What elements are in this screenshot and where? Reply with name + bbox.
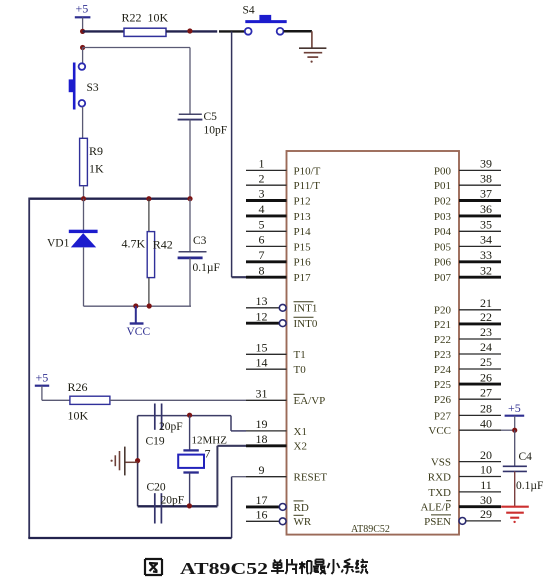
pin 2 P11/T (left) xyxy=(246,171,320,192)
wire R26 to EA/VP pin 31 xyxy=(110,399,246,401)
svg-text:C5: C5 xyxy=(204,111,218,123)
svg-text:40: 40 xyxy=(480,416,492,430)
wire R9 to VD1 rail xyxy=(83,186,85,199)
svg-text:PSEN: PSEN xyxy=(424,516,451,528)
wire S3 to R9 xyxy=(82,107,84,139)
pin 19 X1 (left) xyxy=(246,417,307,438)
svg-text:38: 38 xyxy=(480,171,492,185)
crystal Y1 12MHZ xyxy=(178,416,227,506)
pin 36 P03 (right) xyxy=(434,202,501,223)
pin 40 VCC (right) xyxy=(428,416,501,437)
svg-text:EA/VP: EA/VP xyxy=(294,395,326,407)
pin 29 PSEN (right) xyxy=(424,507,501,528)
pin 8 P17 (left) xyxy=(246,263,311,284)
svg-text:1K: 1K xyxy=(89,162,104,176)
svg-text:INT0: INT0 xyxy=(294,318,318,330)
node junction C4 top xyxy=(512,428,517,433)
node junction ground stub xyxy=(135,458,140,463)
svg-text:24: 24 xyxy=(480,340,492,354)
svg-text:P05: P05 xyxy=(434,241,452,253)
svg-text:29: 29 xyxy=(480,507,492,521)
diode VD1 xyxy=(47,199,98,307)
node junction right of R22 xyxy=(187,28,192,33)
pin 16 WR (left) xyxy=(246,508,312,529)
svg-text:25: 25 xyxy=(480,355,492,369)
svg-text:VD1: VD1 xyxy=(47,238,70,250)
pin 21 P20 (right) xyxy=(434,296,501,317)
svg-text:T0: T0 xyxy=(294,364,307,376)
power +5 (top left) xyxy=(75,2,91,32)
pin 37 P02 (right) xyxy=(434,187,501,208)
wire crystal left rail xyxy=(137,416,139,507)
wire R22 to S4 xyxy=(166,30,245,32)
wire crystal bottom rail xyxy=(138,505,218,507)
node junction R42 top xyxy=(146,196,151,201)
ground (left, rotated) xyxy=(111,447,138,476)
svg-text:36: 36 xyxy=(480,202,492,216)
pin 11 TXD (right) xyxy=(428,478,501,499)
power VCC xyxy=(127,306,151,338)
svg-text:23: 23 xyxy=(480,325,492,339)
svg-text:P22: P22 xyxy=(434,334,451,346)
svg-text:C20: C20 xyxy=(147,482,166,494)
pin 26 P25 (right) xyxy=(434,370,501,391)
pin 39 P00 (right) xyxy=(434,157,501,178)
svg-text:P27: P27 xyxy=(434,410,452,422)
node junction C5-C3 xyxy=(187,196,192,201)
switch S3 xyxy=(69,48,99,110)
svg-text:P12: P12 xyxy=(294,195,311,207)
svg-text:32: 32 xyxy=(480,263,492,277)
svg-text:VCC: VCC xyxy=(428,425,451,437)
pin 20 VSS (right) xyxy=(431,448,501,469)
svg-text:P24: P24 xyxy=(434,364,452,376)
pin 22 P21 (right) xyxy=(434,310,501,331)
resistor R9 xyxy=(80,138,104,185)
svg-text:+5: +5 xyxy=(76,2,89,16)
svg-text:+5: +5 xyxy=(508,401,521,415)
svg-text:C4: C4 xyxy=(519,451,533,463)
svg-text:P21: P21 xyxy=(434,319,451,331)
pin 3 P12 (left) xyxy=(246,187,311,208)
svg-text:P04: P04 xyxy=(434,226,452,238)
node junction VCC stub xyxy=(133,303,138,308)
svg-text:P15: P15 xyxy=(294,241,312,253)
svg-text:17: 17 xyxy=(256,493,268,507)
capacitor C5 xyxy=(178,111,228,199)
pin 18 X2 (left) xyxy=(246,432,307,453)
svg-text:R9: R9 xyxy=(89,144,103,158)
svg-text:37: 37 xyxy=(480,187,492,201)
svg-text:INT1: INT1 xyxy=(294,303,318,315)
svg-text:T1: T1 xyxy=(294,349,306,361)
node junction lower +5 rail xyxy=(80,45,85,50)
svg-text:28: 28 xyxy=(480,402,492,416)
title text: 图 AT89C52 单片机最小系统 xyxy=(145,559,368,578)
pin 13 INT1 (left) xyxy=(246,294,317,315)
pin 28 P27 (right) xyxy=(434,402,501,423)
svg-text:X2: X2 xyxy=(294,441,307,453)
svg-text:1: 1 xyxy=(259,157,265,171)
svg-text:0.1µF: 0.1µF xyxy=(516,480,543,492)
svg-text:X1: X1 xyxy=(294,426,307,438)
svg-text:12: 12 xyxy=(256,309,268,323)
wire RESET riser xyxy=(232,477,246,538)
ground (bottom right, red) xyxy=(501,507,529,523)
wire X1 top rail xyxy=(138,415,231,417)
svg-text:R26: R26 xyxy=(68,380,88,394)
svg-text:P26: P26 xyxy=(434,394,452,406)
pin 6 P15 (left) xyxy=(246,233,311,254)
wire junction to C5 branch xyxy=(83,48,190,114)
pin 27 P26 (right) xyxy=(434,385,501,406)
svg-text:R42: R42 xyxy=(153,238,173,252)
svg-text:2: 2 xyxy=(259,171,265,185)
svg-text:ALE/P: ALE/P xyxy=(420,502,451,514)
wire VCC pin 40 to C4 node xyxy=(501,429,515,431)
svg-text:C19: C19 xyxy=(146,436,165,448)
node junction on +5 rail xyxy=(80,29,85,34)
pin 35 P04 (right) xyxy=(434,218,501,239)
svg-text:P11/T: P11/T xyxy=(294,180,321,192)
pin 1 P10/T (left) xyxy=(246,157,321,178)
pin 7 P16 (left) xyxy=(246,248,311,269)
svg-text:10pF: 10pF xyxy=(204,125,228,137)
svg-text:WR: WR xyxy=(294,516,312,528)
svg-text:7: 7 xyxy=(205,447,211,461)
svg-text:P17: P17 xyxy=(294,272,312,284)
power +5 (at R26) xyxy=(35,371,49,401)
node junction crystal bottom xyxy=(187,503,192,508)
svg-text:34: 34 xyxy=(480,233,492,247)
svg-text:VSS: VSS xyxy=(431,457,451,469)
svg-text:P14: P14 xyxy=(294,226,312,238)
wire +5 to R26 xyxy=(42,399,70,401)
svg-text:35: 35 xyxy=(480,218,492,232)
svg-text:8: 8 xyxy=(259,263,265,277)
svg-text:31: 31 xyxy=(256,387,268,401)
svg-text:0.1µF: 0.1µF xyxy=(193,262,220,274)
pin 24 P23 (right) xyxy=(434,340,501,361)
svg-text:9: 9 xyxy=(259,463,265,477)
svg-text:5: 5 xyxy=(259,218,265,232)
pin 33 P06 (right) xyxy=(434,248,501,269)
svg-text:P03: P03 xyxy=(434,211,452,223)
wire S4 branch down to P17 pin 8 xyxy=(232,31,246,277)
svg-text:30: 30 xyxy=(480,493,492,507)
pin 10 RXD (right) xyxy=(428,463,501,484)
svg-text:20: 20 xyxy=(480,448,492,462)
svg-text:10K: 10K xyxy=(68,409,89,423)
svg-text:VCC: VCC xyxy=(127,326,151,338)
svg-text:20pF: 20pF xyxy=(159,421,183,433)
svg-text:+5: +5 xyxy=(36,371,49,385)
svg-text:P01: P01 xyxy=(434,180,451,192)
svg-text:P13: P13 xyxy=(294,211,312,223)
svg-text:19: 19 xyxy=(256,417,268,431)
switch S4 xyxy=(243,5,287,35)
IC U1 AT89C52 body xyxy=(287,151,460,535)
pin 23 P22 (right) xyxy=(434,325,501,346)
svg-text:S4: S4 xyxy=(243,5,255,17)
svg-text:10: 10 xyxy=(480,463,492,477)
svg-text:P00: P00 xyxy=(434,165,452,177)
svg-text:AT89C52: AT89C52 xyxy=(351,524,390,535)
wire +5 rail to R22 xyxy=(83,30,124,32)
svg-text:16: 16 xyxy=(256,508,268,522)
svg-text:18: 18 xyxy=(256,432,268,446)
svg-text:P10/T: P10/T xyxy=(294,165,321,177)
svg-text:14: 14 xyxy=(256,355,268,369)
svg-text:4.7K: 4.7K xyxy=(122,237,146,251)
capacitor C4 xyxy=(503,430,544,506)
capacitor C3 xyxy=(178,199,220,307)
pin 15 T1 (left) xyxy=(246,341,306,362)
pin 25 P24 (right) xyxy=(434,355,501,376)
svg-text:RESET: RESET xyxy=(294,472,328,484)
svg-text:26: 26 xyxy=(480,370,492,384)
svg-text:RD: RD xyxy=(294,502,309,514)
resistor R42 xyxy=(122,199,173,307)
svg-text:P02: P02 xyxy=(434,195,451,207)
svg-text:15: 15 xyxy=(256,341,268,355)
node junction crystal top xyxy=(187,413,192,418)
svg-text:S3: S3 xyxy=(87,82,99,94)
capacitor C19 xyxy=(146,404,183,448)
resistor R26 xyxy=(68,380,110,423)
svg-text:TXD: TXD xyxy=(428,487,451,499)
svg-text:C3: C3 xyxy=(193,235,207,247)
node junction VD1 top xyxy=(81,196,86,201)
wire lower loop rail xyxy=(84,258,192,306)
svg-text:6: 6 xyxy=(259,233,265,247)
pin 12 INT0 (left) xyxy=(246,309,318,330)
wire X2 to crystal xyxy=(217,446,246,507)
wire upper loop rail xyxy=(29,197,190,199)
svg-text:P06: P06 xyxy=(434,257,452,269)
wire S4 to ground xyxy=(284,31,312,47)
wire X1 step to pin 19 xyxy=(231,416,246,431)
pin 34 P05 (right) xyxy=(434,233,501,254)
resistor R22 xyxy=(122,11,169,37)
capacitor C20 xyxy=(147,482,185,524)
svg-text:13: 13 xyxy=(256,294,268,308)
svg-text:7: 7 xyxy=(259,248,265,262)
pin 14 T0 (left) xyxy=(246,355,306,376)
svg-text:4: 4 xyxy=(259,202,265,216)
svg-text:11: 11 xyxy=(480,478,492,492)
pin 31 EA/VP (left) xyxy=(246,387,325,408)
ground (top, at S4) xyxy=(299,48,326,63)
svg-text:P25: P25 xyxy=(434,379,452,391)
pin 30 ALE/P (right) xyxy=(420,493,501,514)
pin 17 RD (left) xyxy=(246,493,309,514)
power +5 (right) xyxy=(505,401,525,430)
svg-text:P07: P07 xyxy=(434,272,452,284)
svg-text:P16: P16 xyxy=(294,257,312,269)
pin 38 P01 (right) xyxy=(434,171,501,192)
svg-text:3: 3 xyxy=(259,187,265,201)
pin 4 P13 (left) xyxy=(246,202,311,223)
pin 32 P07 (right) xyxy=(434,263,501,284)
svg-text:P20: P20 xyxy=(434,305,452,317)
svg-text:RXD: RXD xyxy=(428,471,451,483)
svg-text:27: 27 xyxy=(480,385,492,399)
svg-text:20pF: 20pF xyxy=(161,495,185,507)
wire bottom rail to RESET xyxy=(28,537,231,539)
pin 9 RESET (left) xyxy=(246,463,327,484)
wire left long rail xyxy=(28,198,30,539)
svg-text:R22 10K: R22 10K xyxy=(122,11,169,25)
svg-text:21: 21 xyxy=(480,296,492,310)
node junction R42 bottom xyxy=(147,303,152,308)
svg-text:33: 33 xyxy=(480,248,492,262)
svg-text:AT89C52: AT89C52 xyxy=(180,559,268,578)
svg-text:22: 22 xyxy=(480,310,492,324)
pin 5 P14 (left) xyxy=(246,218,311,239)
svg-text:39: 39 xyxy=(480,157,492,171)
svg-text:P23: P23 xyxy=(434,349,452,361)
